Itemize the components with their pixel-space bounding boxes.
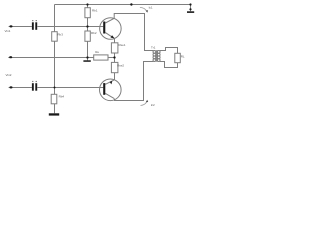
svg-text:RL: RL [181, 55, 185, 59]
svg-text:Rb4: Rb4 [59, 94, 65, 98]
svg-text:Vin2: Vin2 [6, 73, 12, 77]
svg-text:Ic1: Ic1 [149, 6, 153, 10]
svg-text:Rse2: Rse2 [117, 64, 124, 68]
svg-text:Rb1: Rb1 [92, 8, 98, 12]
svg-text:Rse1: Rse1 [119, 43, 126, 47]
svg-text:Rb2: Rb2 [91, 31, 97, 35]
svg-text:Vin1: Vin1 [5, 29, 11, 33]
svg-text:Rb3: Rb3 [57, 32, 63, 36]
svg-text:Ic2: Ic2 [151, 103, 155, 107]
svg-text:Re: Re [95, 50, 99, 54]
svg-text:Tr1: Tr1 [151, 45, 156, 49]
